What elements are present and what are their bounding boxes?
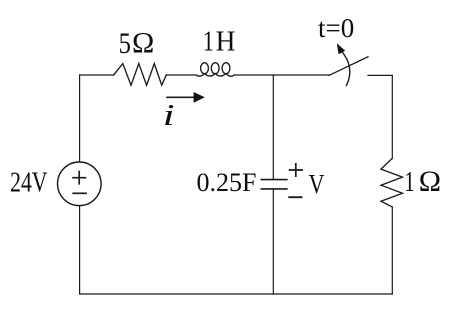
svg-text:1: 1 xyxy=(404,167,415,198)
plus sign at capacitor xyxy=(290,164,303,176)
wire: bottom rail xyxy=(80,293,393,295)
voltage source V1 circle xyxy=(58,162,102,206)
inductor 1H coil loop 1 xyxy=(201,63,209,74)
switch blade (open, t=0) xyxy=(329,57,368,76)
wire: capacitor branch from top wire down to capacitor xyxy=(272,75,274,180)
plus sign inside source xyxy=(73,172,86,184)
resistor 5Ω zigzag xyxy=(114,64,167,86)
wire: left rail top (top wire to source) xyxy=(79,75,81,162)
svg-text:V: V xyxy=(309,170,325,200)
switch actuation arc xyxy=(341,51,350,86)
wire: right rail top segment xyxy=(391,75,393,158)
wire: capacitor to bottom rail xyxy=(272,189,274,294)
inductor 1H coil loop 3 xyxy=(222,63,230,74)
svg-text:0.25F: 0.25F xyxy=(197,168,257,197)
resistor 1Ω vertical zigzag xyxy=(381,158,403,207)
svg-text:H: H xyxy=(216,25,236,56)
switch arc arrowhead xyxy=(337,43,345,54)
svg-text:1: 1 xyxy=(203,26,214,57)
wire: resistor to inductor xyxy=(166,74,196,76)
wire: top-left from left rail to resistor R1 xyxy=(80,74,114,76)
wire: inductor to switch pivot (passes node at x=273) xyxy=(234,74,329,76)
wire: left rail bottom (source to bottom) xyxy=(79,206,81,294)
svg-text:i: i xyxy=(163,98,175,132)
svg-text:5: 5 xyxy=(119,27,131,60)
inductor 1H coil loop 2 xyxy=(211,63,219,74)
wire: switch right contact to right rail xyxy=(368,74,392,76)
capacitor C1 top plate xyxy=(261,179,287,181)
capacitor C1 bottom plate xyxy=(261,188,287,190)
svg-text:Ω: Ω xyxy=(132,27,154,60)
minus sign at capacitor xyxy=(289,196,301,198)
svg-text:24V: 24V xyxy=(10,168,47,198)
svg-text:t=0: t=0 xyxy=(318,13,354,43)
current arrow shaft xyxy=(167,96,194,98)
current arrow head xyxy=(194,92,205,103)
svg-text:Ω: Ω xyxy=(419,165,441,198)
inductor 1H coil baseline curve xyxy=(197,74,234,77)
minus sign inside source xyxy=(73,192,86,194)
wire: right rail bottom segment xyxy=(391,207,393,294)
